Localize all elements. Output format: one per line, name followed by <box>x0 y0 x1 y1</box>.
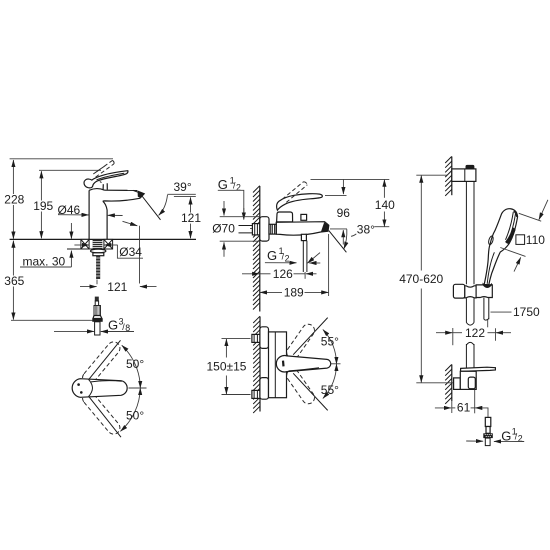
svg-text:38°: 38° <box>357 222 375 236</box>
dimension max. 30 <box>70 223 72 239</box>
wall hatching bottom <box>445 364 452 404</box>
svg-text:228: 228 <box>4 193 24 207</box>
hose outlet fitting (G1/2) <box>485 417 491 426</box>
bath mixer lever <box>277 194 323 211</box>
dimension 365 <box>12 241 14 320</box>
svg-text:122: 122 <box>465 326 485 340</box>
dashed handle rotated up <box>83 342 120 384</box>
wall line top <box>451 157 453 196</box>
wall hatching <box>253 316 260 413</box>
supply hex nut <box>252 224 259 235</box>
extension line lever tip (195) <box>39 169 101 171</box>
basin body dome cap <box>89 189 104 191</box>
39° arc with arrow <box>159 195 168 216</box>
extension line spout tip (189) <box>328 234 330 296</box>
hose extension stub <box>487 320 489 328</box>
label 1750 <box>491 311 512 313</box>
dimension 126 <box>242 273 259 275</box>
dimension 61 <box>474 390 476 414</box>
bottom supply hex nut <box>252 390 260 398</box>
dashed handle rotated down <box>83 392 120 434</box>
□110 extension line lower <box>500 248 525 257</box>
hose below holder <box>484 298 489 319</box>
svg-text:121: 121 <box>181 211 201 225</box>
horseshoe washer <box>91 249 106 253</box>
dimension 470-620 <box>416 174 447 176</box>
svg-text:G: G <box>267 248 277 263</box>
svg-text:50°: 50° <box>126 408 144 422</box>
face plate dark band <box>505 227 515 244</box>
svg-text:126: 126 <box>273 267 293 281</box>
Ø34 hole arrows <box>74 244 89 246</box>
flow arrow (bath spout) <box>308 253 321 264</box>
svg-text:140: 140 <box>375 198 395 212</box>
bottom bracket body <box>460 371 476 389</box>
body left edge line <box>275 222 277 234</box>
svg-text:55°: 55° <box>321 383 339 397</box>
dashed lever rotated down <box>287 369 315 404</box>
50° rays <box>89 340 121 379</box>
extension line top of handle (228) <box>10 158 113 160</box>
threaded stud <box>96 256 100 279</box>
rail cap <box>466 165 474 169</box>
dimension 96 <box>342 180 344 195</box>
svg-text:55°: 55° <box>321 335 339 349</box>
□110 arrow lower <box>514 257 521 271</box>
diverter knob <box>301 214 307 220</box>
svg-text:Ø70: Ø70 <box>212 222 235 236</box>
svg-text:39°: 39° <box>174 180 192 194</box>
mixer body <box>269 332 287 398</box>
39° spray ray <box>142 196 161 220</box>
extension line lever tip (96) <box>325 194 347 196</box>
hose tube <box>95 301 98 306</box>
bottom flange <box>260 378 269 400</box>
dashed lever rotated up <box>287 324 315 359</box>
supply pipe stub <box>239 226 253 233</box>
outlet extension line <box>304 272 306 279</box>
adapter hex between flange and body <box>269 224 276 234</box>
bottom bracket glide bar <box>461 367 496 371</box>
head top cap dark edge <box>513 211 517 217</box>
top bracket <box>452 169 476 182</box>
wall hatching <box>253 186 260 310</box>
handle inner lines <box>487 252 494 283</box>
svg-text:150±15: 150±15 <box>207 360 247 374</box>
dimension square 110 <box>516 235 525 245</box>
centerline tick <box>331 363 341 365</box>
basin lever handle <box>84 171 128 188</box>
G3/8 pipe end <box>95 322 100 335</box>
dashed raised lever (basin) <box>93 160 114 177</box>
svg-text:365: 365 <box>4 274 24 288</box>
top flange <box>260 327 269 349</box>
svg-text:470-620: 470-620 <box>399 272 443 286</box>
55° rays <box>293 318 328 355</box>
threaded shank through deck <box>93 240 103 250</box>
svg-text:G: G <box>108 317 118 332</box>
dimension 195 <box>40 171 42 238</box>
shower mixer lever (solid) <box>276 356 330 372</box>
face plate inner lines <box>507 214 515 243</box>
50° arcs with arrows <box>122 345 141 388</box>
cartridge cap <box>277 212 293 222</box>
handle cone in holder (dark) <box>482 283 492 289</box>
top supply hex nut <box>252 334 260 342</box>
shower outlet fitting <box>301 234 306 240</box>
label Ø34 with hole arrows <box>117 245 143 258</box>
svg-text:2: 2 <box>285 253 290 263</box>
svg-text:96: 96 <box>337 206 351 220</box>
□110 extension line upper <box>519 213 541 221</box>
bottom bracket wall block <box>454 378 461 390</box>
svg-text:Ø34: Ø34 <box>119 245 142 259</box>
hose braided section <box>94 306 100 316</box>
centerline <box>129 387 147 389</box>
38° spray ray <box>329 231 347 253</box>
lever neck <box>103 183 107 190</box>
spout tip aerator (dark) <box>138 191 146 199</box>
bath mixer body/spout <box>276 222 329 236</box>
extension line bottom port (140) <box>374 226 389 228</box>
dimension 140 <box>383 180 385 198</box>
dimension 150±15 <box>222 338 251 340</box>
shower outlet pipe <box>303 241 307 272</box>
svg-text:max. 30: max. 30 <box>23 254 66 268</box>
□110 arrow upper <box>539 200 548 220</box>
wall line <box>259 317 261 412</box>
extension line spout outlet (96) <box>330 228 347 230</box>
G3/8 cone <box>93 316 102 319</box>
svg-text:2: 2 <box>518 434 523 444</box>
svg-text:1750: 1750 <box>513 305 540 319</box>
svg-text:110: 110 <box>526 233 545 247</box>
wall flange (Ø70) <box>260 217 269 241</box>
dimension 228 <box>12 160 14 239</box>
svg-text:2: 2 <box>236 183 241 193</box>
svg-text:121: 121 <box>107 280 127 294</box>
svg-text:50°: 50° <box>126 357 144 371</box>
svg-text:61: 61 <box>457 401 471 415</box>
wall hatching top <box>445 156 452 196</box>
svg-text:195: 195 <box>33 199 53 213</box>
flexible hose upper nipple <box>95 297 99 301</box>
wall line bottom <box>451 365 453 402</box>
dimension 189 <box>260 291 282 293</box>
svg-text:189: 189 <box>284 286 304 300</box>
basin spout <box>105 189 138 191</box>
G3/8 knurled nut <box>92 319 102 322</box>
deck section hatch blocks <box>67 239 113 249</box>
55° arcs with arrows <box>323 330 337 365</box>
dashed raised lever (bath) <box>282 182 307 203</box>
lever dark dash <box>282 361 285 367</box>
counter/deck line <box>10 238 196 240</box>
spout tip aerator (dark) <box>321 222 329 232</box>
hand shower head <box>484 209 517 285</box>
baseline of 365 (hose end level) <box>11 319 93 321</box>
dimension 122 <box>452 328 454 345</box>
flow direction arrow (basin spout) <box>123 221 138 226</box>
supply centerline <box>250 227 269 229</box>
handle top view (solid) <box>72 379 127 398</box>
38° arc with arrow <box>344 229 347 249</box>
dimension 121 (projection, bottom) <box>96 280 98 285</box>
wall line <box>259 186 261 312</box>
dimension 121 (spout height, right) <box>190 197 192 238</box>
extension line top of lever (140/96) <box>311 178 390 180</box>
shower rail <box>466 181 474 284</box>
mounting nut <box>93 253 104 256</box>
slider holder <box>453 284 464 298</box>
spray button <box>488 236 494 246</box>
basin mixer body <box>88 190 90 239</box>
